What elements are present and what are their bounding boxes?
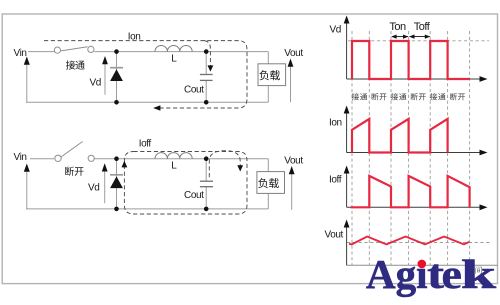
inductor L2 (155, 153, 192, 159)
circuit 1: wire top from Vin to switch (28, 51, 54, 53)
svg-text:Cout: Cout (184, 85, 204, 96)
svg-text:Ioff: Ioff (139, 138, 152, 149)
diode D1 triangle (110, 69, 123, 81)
svg-text:Ion: Ion (329, 118, 342, 129)
dashed current loop Ion (circuit 1) (44, 41, 247, 108)
diode D2 triangle (110, 176, 123, 188)
switch S2 lever (open) (60, 142, 82, 158)
svg-text:Vin: Vin (14, 152, 27, 163)
Ion red waveform (352, 119, 448, 153)
Agitek logo red dot on i (418, 260, 427, 269)
Vd plot y axis (346, 22, 348, 79)
label 负载 (circuit 1) (259, 70, 269, 80)
svg-text:Ioff: Ioff (329, 175, 342, 186)
loop 2 arrowhead (left edge, pointing up) (122, 161, 128, 168)
svg-text:k: k (461, 251, 497, 297)
svg-text:Vout: Vout (284, 155, 303, 166)
Ion plot y axis (346, 112, 348, 153)
loop 1 arrowhead (bottom, pointing left) (153, 105, 160, 111)
switch S2 contact circle left (55, 155, 61, 161)
circuit 1: load drop wires (267, 52, 269, 103)
接通/断开 labels under Vd plot (352, 93, 359, 100)
circuit 1: wire top from switch to load corner (94, 51, 268, 53)
svg-text:L: L (171, 54, 177, 65)
arrow Vout (circuit 1) (290, 66, 292, 102)
Vd plot x axis (347, 78, 481, 80)
svg-text:Agı: Agı (366, 251, 428, 297)
svg-text:Ton: Ton (389, 21, 406, 33)
arrow Vin (circuit 1) (26, 64, 28, 102)
grid: gray dashed vertical time lines (352, 31, 470, 265)
svg-text:Vin: Vin (14, 48, 27, 59)
switch S1 contact circle right (88, 46, 94, 52)
label 时间 (time axis) (467, 266, 474, 273)
label 断开 (circuit 2) (65, 167, 74, 176)
Vd high level gray dashed line (348, 40, 489, 42)
node dots circuit 1 (114, 49, 119, 54)
capacitor Cout1 plates (200, 74, 213, 76)
svg-text:Vout: Vout (325, 230, 344, 241)
switch S1 contact circle left (54, 47, 60, 53)
circuit 2: diode branch wire (116, 159, 118, 209)
svg-text:Vd: Vd (88, 182, 99, 193)
circuit 1: capacitor branch wire upper (205, 52, 207, 75)
circuit 2: bottom wire (26, 208, 268, 210)
Vout red ripple waveform (349, 237, 469, 245)
diode D2 cathode bar (110, 174, 123, 176)
svg-text:Toff: Toff (414, 21, 431, 33)
Ioff plot x axis (347, 206, 481, 208)
arrow Vd (circuit 1) (104, 64, 106, 95)
Vd red square waveform (352, 41, 470, 79)
Vout plot y axis (346, 226, 348, 265)
circuit 1: capacitor branch wire lower (205, 80, 207, 102)
load box (circuit 1) (258, 64, 286, 86)
circuit 2: wire top from switch to load corner (94, 158, 268, 160)
dashed current loop Ioff (circuit 2) rounded rect (124, 152, 247, 215)
circuit 2: load drop wires (267, 159, 269, 209)
circuit 1: diode branch wire (116, 52, 118, 103)
inductor L1 (155, 45, 192, 51)
arrow Vin (circuit 2) (26, 171, 28, 209)
waveform panel bottom line (347, 264, 498, 266)
label 负载 (circuit 2) (258, 178, 268, 188)
svg-text:L: L (171, 161, 177, 172)
Ioff red waveform (351, 176, 470, 207)
load box (circuit 2) (257, 172, 285, 194)
Toff double arrow (410, 36, 430, 38)
svg-text:e: e (442, 252, 462, 297)
switch S2 contact circle right (88, 155, 94, 161)
Ioff plot y axis (346, 172, 348, 207)
circuit 2: wire top from Vin to switch (30, 158, 54, 160)
loop 2 inner dashed arc over wire with down arrow (209, 151, 240, 178)
arrow Vd (circuit 2) (104, 171, 106, 203)
svg-text:Vd: Vd (90, 78, 101, 89)
circuit 2: capacitor branch wires (205, 159, 207, 209)
svg-text:Vd: Vd (330, 25, 341, 36)
Ton double arrow (392, 36, 408, 38)
capacitor Cout2 plates (200, 180, 213, 182)
label 接通 (circuit 1) (66, 60, 75, 69)
circuit 1: bottom wire (26, 101, 268, 103)
arrow Vout (circuit 2) (291, 174, 293, 210)
svg-text:Cout: Cout (184, 190, 204, 201)
svg-text:Vout: Vout (284, 48, 303, 59)
switch S1 lever (closed) (61, 47, 88, 51)
diode D1 cathode bar (110, 67, 123, 69)
node dots circuit 2 (114, 156, 119, 161)
Ion plot x axis (347, 152, 481, 154)
loop 1 inner branch dashed arrow down at capacitor (205, 41, 211, 66)
Vout level gray dashed line (347, 242, 490, 244)
